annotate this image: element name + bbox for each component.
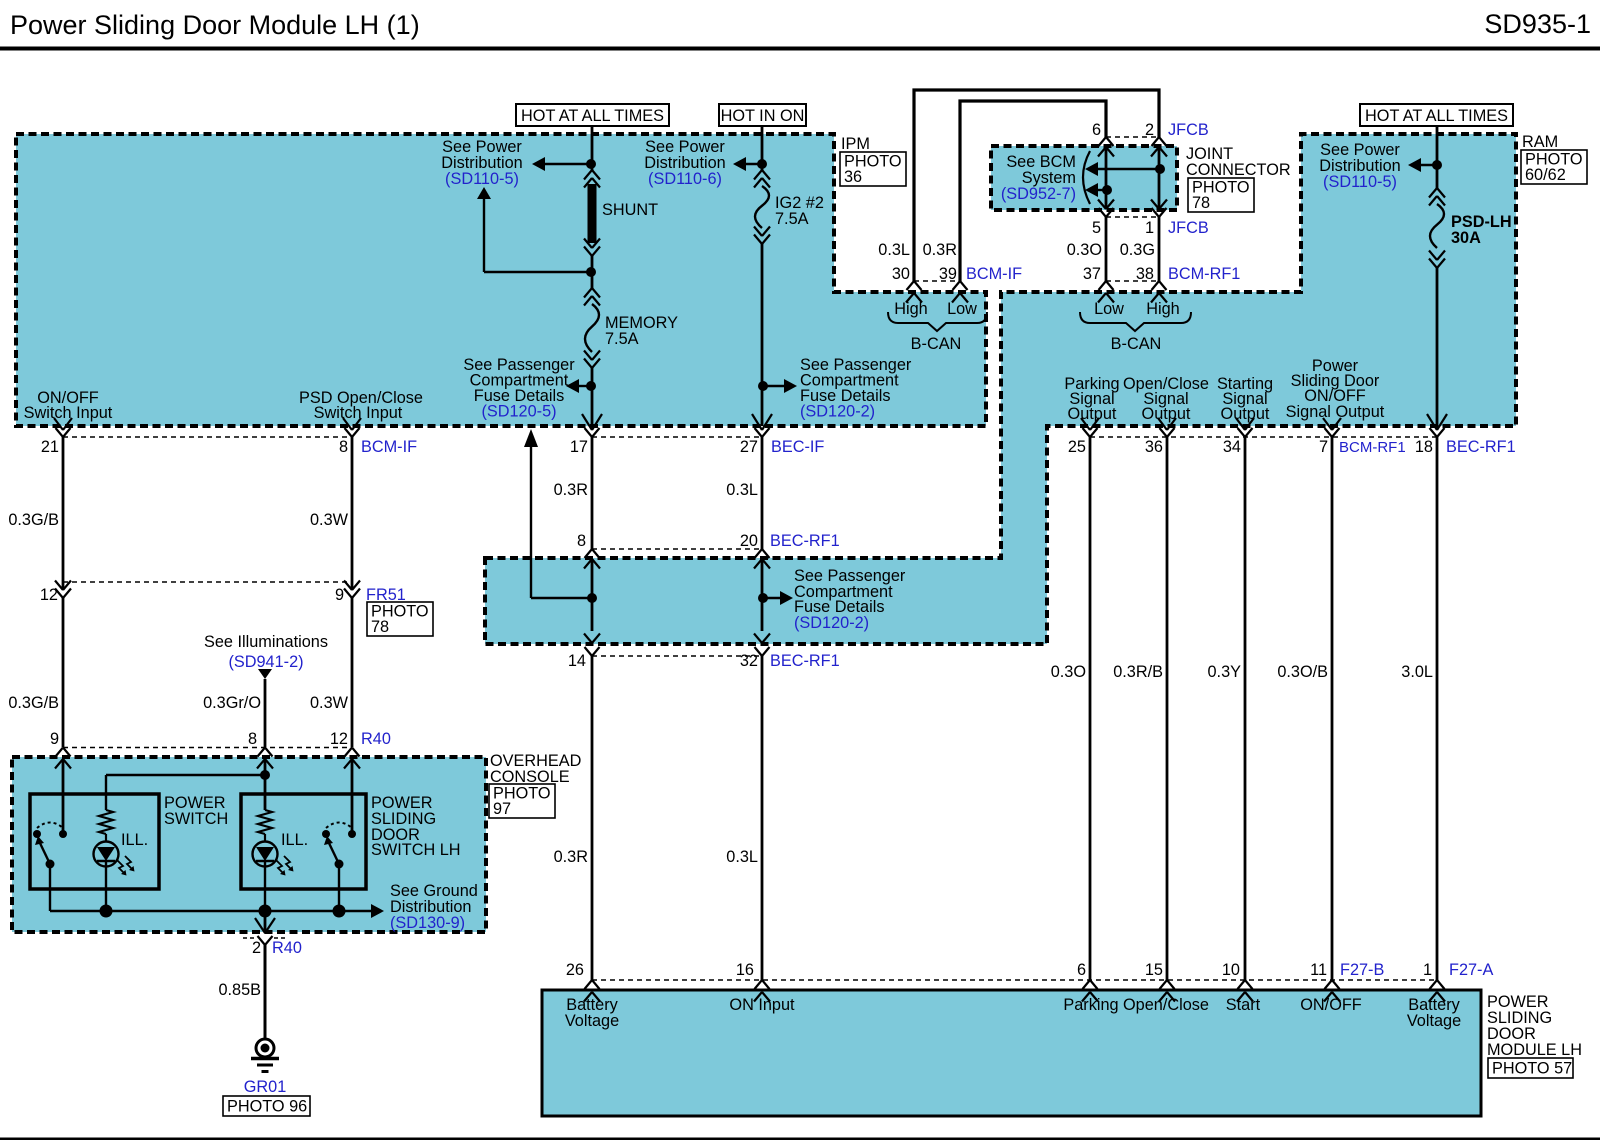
- svg-text:0.3L: 0.3L: [726, 481, 758, 499]
- svg-text:8: 8: [339, 438, 348, 456]
- svg-text:R40: R40: [361, 730, 391, 748]
- svg-text:97: 97: [493, 800, 511, 818]
- svg-text:78: 78: [371, 618, 389, 636]
- signal wire x1167 to module: [1166, 437, 1169, 980]
- svg-text:High: High: [894, 300, 928, 318]
- svg-text:3.0L: 3.0L: [1401, 663, 1433, 681]
- signal pin exit arrow x1245: [1236, 418, 1245, 430]
- ground photo box: [223, 1096, 310, 1116]
- memory fuse top chevrons: [584, 288, 592, 298]
- B-CAN outer loop wire (30 to 38): [914, 90, 1159, 281]
- power switch illumination LED: [94, 842, 119, 867]
- svg-text:37: 37: [1083, 265, 1101, 283]
- power sliding door module LH box: [542, 990, 1481, 1116]
- overhead console region: [12, 757, 486, 932]
- module pin fork x1245: [1238, 980, 1246, 989]
- arrowhead down from See Illuminations: [258, 669, 272, 679]
- svg-text:0.85B: 0.85B: [218, 981, 261, 999]
- pin 12 chevron into console: [344, 759, 352, 769]
- joint connector JFCB box (See BCM System): [991, 146, 1177, 210]
- IG2 fuse top chevrons: [754, 170, 762, 180]
- svg-text:7.5A: 7.5A: [605, 330, 639, 348]
- svg-text:RAM: RAM: [1522, 133, 1558, 151]
- svg-text:BCM-RF1: BCM-RF1: [1168, 265, 1240, 283]
- svg-text:JFCB: JFCB: [1168, 219, 1209, 237]
- svg-text:30: 30: [892, 265, 910, 283]
- svg-text:BCM-IF: BCM-IF: [361, 438, 417, 456]
- wire pin 32 to module pin 16: [761, 656, 764, 980]
- pin 8 entry chevron into middle box: [584, 559, 592, 569]
- svg-text:78: 78: [1192, 194, 1210, 212]
- wire pin 14 to module pin 26: [591, 656, 594, 980]
- svg-text:HOT AT ALL TIMES: HOT AT ALL TIMES: [521, 107, 664, 125]
- svg-text:HOT IN ON: HOT IN ON: [721, 107, 805, 125]
- arrowhead up to region1 (SD120-5 fuse details): [524, 429, 538, 447]
- wire pin 17 to pin 8: [591, 437, 594, 549]
- svg-text:Output: Output: [1142, 405, 1191, 423]
- label box HOT AT ALL TIMES left: [516, 104, 669, 126]
- svg-text:R40: R40: [272, 939, 302, 957]
- wire inside middle box left: [591, 559, 594, 631]
- svg-text:0.3O: 0.3O: [1067, 241, 1102, 259]
- svg-text:21: 21: [41, 438, 59, 456]
- svg-text:9: 9: [50, 730, 59, 748]
- svg-text:0.3L: 0.3L: [726, 848, 758, 866]
- connector row pins 8 20 BEC-RF1: [585, 549, 593, 558]
- wire JFCB pin1 to BCM-RF1 pin 38: [1158, 217, 1161, 281]
- arrow upper to See BCM System: [1085, 162, 1098, 176]
- svg-text:ON Input: ON Input: [729, 996, 795, 1014]
- svg-text:2: 2: [1145, 121, 1154, 139]
- wire IG2 fuse to pin 27: [761, 244, 764, 426]
- signal pin exit arrow x1167: [1158, 418, 1167, 430]
- wire pin 12 to PSD switch contact: [351, 759, 354, 834]
- label box HOT AT ALL TIMES right: [1360, 104, 1513, 126]
- svg-text:34: 34: [1223, 438, 1241, 456]
- shunt element: [588, 184, 597, 243]
- svg-text:Start: Start: [1226, 996, 1261, 1014]
- pin 20 entry chevron into middle box: [754, 559, 762, 569]
- svg-text:GR01: GR01: [244, 1078, 287, 1096]
- PSD-LH fuse element: [1430, 204, 1444, 248]
- ground symbol GR01: [256, 1039, 274, 1057]
- svg-text:(SD110-5): (SD110-5): [1323, 173, 1397, 191]
- svg-text:30A: 30A: [1451, 229, 1481, 247]
- wire JFCB through See BCM box left: [1105, 147, 1108, 209]
- svg-text:Power Sliding Door Module LH (: Power Sliding Door Module LH (1): [10, 10, 420, 40]
- svg-text:0.3Y: 0.3Y: [1208, 663, 1242, 681]
- pin 9 chevron into console: [55, 759, 63, 769]
- wire pin 27 to pin 20: [761, 437, 764, 549]
- svg-text:PHOTO 57: PHOTO 57: [1492, 1060, 1572, 1078]
- pin 27 exit arrow: [752, 414, 762, 430]
- svg-text:Low: Low: [947, 300, 977, 318]
- svg-text:39: 39: [939, 265, 957, 283]
- svg-text:See Illuminations: See Illuminations: [204, 633, 328, 651]
- svg-text:6: 6: [1077, 961, 1086, 979]
- brace of See BCM System callout: [1083, 151, 1090, 204]
- svg-text:ILL.: ILL.: [281, 831, 308, 849]
- junction dot BCM system right: [1155, 164, 1165, 174]
- power switch box: [30, 794, 159, 889]
- svg-text:0.3G/B: 0.3G/B: [8, 694, 59, 712]
- B-CAN left brace: [888, 312, 987, 331]
- junction dot below shunt: [586, 267, 596, 277]
- svg-text:(SD941-2): (SD941-2): [228, 653, 303, 671]
- svg-text:6: 6: [1092, 121, 1101, 139]
- PSD-LH fuse top chevrons: [1429, 188, 1437, 198]
- ground bus junction dot 2: [259, 905, 272, 918]
- memory fuse element: [585, 304, 599, 352]
- console ground bus wire: [50, 910, 373, 912]
- svg-text:10: 10: [1222, 961, 1240, 979]
- IG2 fuse bottom chevrons: [754, 227, 762, 237]
- PSD switch contacts and lever: [348, 830, 356, 838]
- arrow to See Ground Distribution: [371, 904, 384, 918]
- svg-text:1: 1: [1145, 219, 1154, 237]
- connector row JFCB pins 5 and 1: [1098, 200, 1106, 210]
- shunt bottom connector chevrons: [584, 239, 592, 249]
- svg-text:0.3W: 0.3W: [310, 511, 349, 529]
- svg-text:Open/Close: Open/Close: [1123, 996, 1209, 1014]
- power switch illumination resistor: [99, 810, 113, 834]
- svg-text:BEC-RF1: BEC-RF1: [770, 652, 840, 670]
- svg-text:0.3O: 0.3O: [1051, 663, 1086, 681]
- wire pin 21 to pin 12: [62, 437, 65, 590]
- svg-text:12: 12: [330, 730, 348, 748]
- svg-text:BEC-RF1: BEC-RF1: [1446, 438, 1516, 456]
- pin 14 exit from middle box: [584, 634, 592, 644]
- connector row dashes 25-18: [1090, 436, 1437, 438]
- svg-text:Output: Output: [1221, 405, 1270, 423]
- svg-text:MODULE LH: MODULE LH: [1487, 1041, 1582, 1059]
- junction dot middle box left: [587, 593, 597, 603]
- connector row dashes 17-27: [592, 436, 762, 438]
- B-CAN right brace: [1080, 312, 1191, 331]
- FR51 photo box: [367, 602, 433, 636]
- svg-text:5: 5: [1092, 219, 1101, 237]
- wire hot-at-all-times to PSD-LH fuse: [1436, 126, 1439, 188]
- svg-text:0.3W: 0.3W: [310, 694, 349, 712]
- svg-text:8: 8: [248, 730, 257, 748]
- svg-text:2: 2: [252, 939, 261, 957]
- header rule: [0, 47, 1600, 51]
- B-CAN inner loop wire (39 to 37): [960, 101, 1106, 281]
- svg-text:F27-A: F27-A: [1449, 961, 1493, 979]
- svg-text:11: 11: [1310, 961, 1327, 979]
- pin 17 exit arrow: [582, 414, 592, 430]
- connector row dashes 21-8: [63, 436, 352, 438]
- wire illumination feed to pin 8: [264, 679, 267, 747]
- svg-text:HOT AT ALL TIMES: HOT AT ALL TIMES: [1365, 107, 1508, 125]
- branch wire to SD120-5 arrow: [531, 597, 592, 599]
- svg-text:7.5A: 7.5A: [775, 210, 809, 228]
- svg-text:20: 20: [740, 532, 758, 550]
- module pin fork x1167: [1160, 980, 1168, 989]
- svg-text:(SD120-5): (SD120-5): [481, 403, 556, 421]
- svg-text:BEC-RF1: BEC-RF1: [770, 532, 840, 550]
- module pin fork x762: [755, 980, 763, 989]
- svg-text:(SD120-2): (SD120-2): [794, 614, 869, 632]
- wire inside middle box right: [761, 559, 764, 631]
- pin 8 exit arrow: [343, 418, 352, 430]
- signal wire x1332 to module: [1331, 437, 1334, 980]
- svg-text:Low: Low: [1094, 300, 1124, 318]
- pin 8 chevron into console: [257, 759, 265, 769]
- svg-text:SHUNT: SHUNT: [602, 201, 658, 219]
- junction dot PSD feed: [1432, 160, 1442, 170]
- connector row BCM-IF pins 30 39: [914, 280, 960, 282]
- svg-text:1: 1: [1423, 961, 1432, 979]
- svg-text:8: 8: [577, 532, 586, 550]
- shunt top connector chevrons: [584, 170, 592, 180]
- svg-text:12: 12: [40, 586, 58, 604]
- arrowhead up to See Power Distribution: [477, 187, 491, 199]
- arrow to See Power Distribution SD110-5: [532, 157, 545, 171]
- signal wire x1090 to module: [1089, 437, 1092, 980]
- svg-text:Parking: Parking: [1063, 996, 1118, 1014]
- RAM photo box: [1521, 150, 1587, 184]
- svg-text:9: 9: [335, 586, 344, 604]
- svg-text:F27-B: F27-B: [1340, 961, 1384, 979]
- junction dot at shunt top: [586, 159, 596, 169]
- ground bus junction dot 1: [100, 905, 113, 918]
- svg-text:ILL.: ILL.: [121, 831, 148, 849]
- console photo box: [489, 784, 555, 818]
- svg-text:0.3R: 0.3R: [554, 848, 588, 866]
- module pin fork x1090: [1083, 980, 1091, 989]
- pin 18 exit arrow: [1427, 414, 1437, 430]
- svg-text:ON/OFF: ON/OFF: [1300, 996, 1362, 1014]
- svg-text:BEC-IF: BEC-IF: [771, 438, 824, 456]
- harness region right (BCM-RF1 / BEC-RF1 side): [485, 134, 1516, 644]
- svg-text:0.3R: 0.3R: [923, 241, 957, 259]
- IG2 fuse element: [755, 186, 769, 228]
- footer rule: [0, 1138, 1600, 1141]
- wire branch to SD110-5 up arrow: [484, 271, 591, 273]
- wire hot-in-on to IG2 fuse: [761, 126, 764, 170]
- svg-text:18: 18: [1415, 438, 1433, 456]
- svg-text:Switch Input: Switch Input: [314, 404, 403, 422]
- svg-text:26: 26: [566, 961, 584, 979]
- svg-text:BCM-RF1: BCM-RF1: [1339, 439, 1406, 456]
- connector row pins 9 8 12 R40: [56, 748, 64, 757]
- svg-text:38: 38: [1136, 265, 1154, 283]
- junction dot illumination bus: [260, 770, 270, 780]
- power switch contacts and lever: [59, 830, 67, 838]
- svg-text:SWITCH: SWITCH: [164, 810, 228, 828]
- svg-text:27: 27: [740, 438, 758, 456]
- PSD-LH fuse bottom chevrons: [1429, 251, 1437, 261]
- wire pin 12 to pin 9 lower-left: [62, 598, 65, 747]
- IPM photo box: [840, 152, 906, 186]
- label box HOT IN ON: [719, 104, 806, 126]
- harness region left (BCM-IF side): [16, 134, 986, 426]
- power sliding door switch LH box: [241, 794, 366, 889]
- svg-text:Switch Input: Switch Input: [24, 404, 113, 422]
- in-line connector row 12-9 FR51: [55, 581, 63, 591]
- arrow to See Passenger Compartment Fuse Details SD120-2 upper: [784, 379, 797, 393]
- svg-text:IPM: IPM: [841, 135, 870, 153]
- junction dot wire 762 at SD120-2 branch: [758, 381, 768, 391]
- pin 32 exit from middle box: [754, 634, 762, 644]
- ground bus junction dot 3: [333, 905, 346, 918]
- PSD switch illumination resistor: [258, 810, 272, 834]
- svg-text:CONNECTOR: CONNECTOR: [1186, 161, 1291, 179]
- svg-text:B-CAN: B-CAN: [911, 335, 962, 353]
- ground wire 0.85B: [264, 944, 267, 1039]
- svg-text:B-CAN: B-CAN: [1111, 335, 1162, 353]
- joint connector photo box: [1188, 178, 1254, 212]
- junction dot BCM system left: [1102, 185, 1112, 195]
- svg-text:Voltage: Voltage: [1407, 1012, 1461, 1030]
- svg-text:36: 36: [844, 168, 862, 186]
- svg-text:(SD120-2): (SD120-2): [800, 403, 875, 421]
- svg-text:16: 16: [736, 961, 754, 979]
- wire JFCB through See BCM box right: [1158, 147, 1161, 209]
- module connector row dashes: [592, 979, 1437, 981]
- svg-text:High: High: [1146, 300, 1180, 318]
- memory fuse bottom chevrons: [584, 351, 592, 361]
- svg-text:7: 7: [1319, 438, 1328, 456]
- junction dot at IG2 top: [757, 159, 767, 169]
- svg-text:0.3G: 0.3G: [1120, 241, 1155, 259]
- connector row dashes 14-32: [592, 655, 762, 657]
- svg-text:0.3Gr/O: 0.3Gr/O: [203, 694, 261, 712]
- svg-text:0.3R/B: 0.3R/B: [1113, 663, 1163, 681]
- wire pin 8 to pin 9: [351, 437, 354, 590]
- svg-text:0.3R: 0.3R: [554, 481, 588, 499]
- svg-text:Voltage: Voltage: [565, 1012, 619, 1030]
- wire shunt to memory fuse: [591, 256, 594, 288]
- arrow to See Passenger Compartment Fuse Details SD120-2 lower: [780, 591, 793, 605]
- svg-text:17: 17: [570, 438, 588, 456]
- wire PSD-LH fuse to pin 18: [1436, 268, 1439, 426]
- wire pin 9 to power switch contact: [62, 759, 65, 834]
- wire pin 9 to pin 12 right: [351, 598, 354, 747]
- connector row BCM-RF1 pins 37 38: [1106, 280, 1159, 282]
- wire illumination branch to power switch resistor: [106, 774, 265, 776]
- PSD switch LED light arrows: [276, 860, 284, 874]
- svg-text:25: 25: [1068, 438, 1086, 456]
- console bottom pin 2 R40: [264, 911, 267, 930]
- svg-text:60/62: 60/62: [1525, 166, 1566, 184]
- svg-text:SD935-1: SD935-1: [1484, 9, 1591, 39]
- signal pin exit arrow x1332: [1323, 418, 1332, 430]
- svg-text:15: 15: [1145, 961, 1163, 979]
- svg-text:Signal Output: Signal Output: [1286, 403, 1385, 421]
- junction dot middle box right: [758, 593, 768, 603]
- module pin fork x592: [585, 980, 593, 989]
- arrow lower to See BCM System: [1085, 183, 1098, 197]
- svg-text:0.3L: 0.3L: [878, 241, 910, 259]
- connector row JFCB pins 6 and 2: [1106, 136, 1159, 138]
- svg-text:36: 36: [1145, 438, 1163, 456]
- svg-text:14: 14: [568, 652, 586, 670]
- wire JFCB pin5 to BCM-RF1 pin 37: [1105, 217, 1108, 281]
- junction dot wire 592 at SD120-5 branch: [586, 381, 596, 391]
- power switch LED light arrows: [117, 860, 125, 874]
- svg-text:JFCB: JFCB: [1168, 121, 1209, 139]
- signal wire x1437 to module: [1436, 437, 1439, 980]
- arrow to See Passenger Compartment Fuse Details SD120-5: [566, 379, 579, 393]
- svg-text:PHOTO 96: PHOTO 96: [227, 1098, 307, 1116]
- signal pin exit arrow x1090: [1081, 418, 1090, 430]
- wire memory fuse to pin 17: [591, 368, 594, 426]
- svg-text:(SD952-7): (SD952-7): [1001, 185, 1076, 203]
- svg-text:Output: Output: [1068, 405, 1117, 423]
- svg-text:32: 32: [740, 652, 758, 670]
- svg-text:0.3O/B: 0.3O/B: [1277, 663, 1328, 681]
- svg-text:SWITCH LH: SWITCH LH: [371, 841, 461, 859]
- module pin fork x1437: [1430, 980, 1438, 989]
- svg-text:BCM-IF: BCM-IF: [966, 265, 1022, 283]
- svg-text:(SD130-9): (SD130-9): [390, 914, 465, 932]
- arrow to See Power Distribution SD110-6: [733, 157, 746, 171]
- wire hot-at-all-times to shunt: [591, 126, 594, 170]
- module photo box: [1488, 1058, 1573, 1078]
- PSD switch illumination LED: [253, 842, 278, 867]
- module pin fork x1332: [1325, 980, 1333, 989]
- svg-text:(SD110-5): (SD110-5): [445, 170, 519, 188]
- signal wire x1245 to module: [1244, 437, 1247, 980]
- wire pin 8 into console: [264, 759, 267, 810]
- svg-text:(SD110-6): (SD110-6): [648, 170, 722, 188]
- arrow to See Power Distribution SD110-5 right: [1408, 158, 1421, 172]
- svg-text:0.3G/B: 0.3G/B: [8, 511, 59, 529]
- pin 21 exit arrow: [54, 418, 63, 430]
